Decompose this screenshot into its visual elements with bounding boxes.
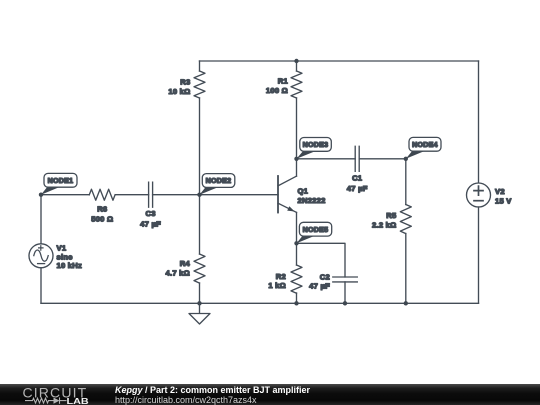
- wire R6 to C3: [115, 194, 148, 196]
- wire Q1 collector lead: [296, 159, 298, 176]
- wire C2 bottom lead: [344, 282, 346, 303]
- svg-text:R2: R2: [276, 272, 286, 281]
- svg-text:NODE1: NODE1: [48, 177, 74, 185]
- resistor R1: [266, 71, 302, 98]
- capacitor C2: [309, 273, 357, 291]
- svg-text:2.2 kΩ: 2.2 kΩ: [372, 221, 396, 230]
- svg-text:NODE5: NODE5: [303, 226, 329, 234]
- svg-text:Q1: Q1: [298, 186, 309, 195]
- transistor Q1: [278, 176, 326, 213]
- wire R4 bottom lead: [199, 283, 201, 303]
- wire R1 top lead: [296, 61, 298, 71]
- wire R3 bottom lead: [199, 98, 201, 195]
- wire NODE4 to R5: [405, 159, 407, 205]
- wire bottom rail: [41, 302, 479, 304]
- resistor R4: [166, 254, 205, 283]
- ground: [189, 303, 210, 324]
- footer url text: [115, 395, 257, 405]
- svg-text:V2: V2: [495, 187, 505, 196]
- svg-text:C3: C3: [145, 209, 155, 218]
- wire NODE1 to R6: [41, 194, 89, 196]
- junction R2 bottom: [294, 301, 298, 305]
- svg-text:NODE4: NODE4: [412, 141, 438, 149]
- svg-text:R5: R5: [386, 211, 397, 220]
- wire R1 bottom lead: [296, 98, 298, 159]
- resistor R6: [89, 189, 115, 224]
- junction top R1: [294, 59, 298, 63]
- svg-text:R4: R4: [180, 259, 191, 268]
- junction R5 bottom: [404, 301, 408, 305]
- svg-text:100 Ω: 100 Ω: [266, 86, 288, 95]
- wire NODE2 to Q1 base: [200, 194, 279, 196]
- svg-text:10 kHz: 10 kHz: [57, 261, 83, 270]
- capacitor C1: [347, 146, 368, 193]
- wire R2 bottom lead: [296, 293, 298, 303]
- svg-text:10 kΩ: 10 kΩ: [168, 87, 190, 96]
- node NODE4: [404, 137, 441, 161]
- svg-text:47 µF: 47 µF: [309, 281, 330, 290]
- wire R2 top lead: [296, 243, 298, 265]
- svg-text:1 kΩ: 1 kΩ: [268, 281, 286, 290]
- wire V1 bottom lead: [40, 268, 42, 304]
- resistor R3: [168, 71, 205, 98]
- svg-text:NODE2: NODE2: [206, 177, 232, 185]
- wire C1 to NODE4: [359, 158, 406, 160]
- svg-text:47 µF: 47 µF: [140, 219, 161, 228]
- footer banner: [0, 384, 540, 405]
- wire V1 top lead: [40, 195, 42, 244]
- CircuitLab logo: [22, 384, 94, 405]
- svg-text:V1: V1: [57, 244, 67, 253]
- wire top rail: [200, 60, 479, 62]
- svg-text:R1: R1: [278, 77, 289, 86]
- wire Q1 emitter lead: [296, 212, 298, 243]
- svg-text:R3: R3: [180, 78, 190, 87]
- resistor R2: [268, 265, 302, 293]
- svg-text:2N2222: 2N2222: [298, 196, 326, 205]
- svg-text:LAB: LAB: [67, 397, 89, 405]
- svg-text:4.7 kΩ: 4.7 kΩ: [166, 268, 190, 277]
- svg-text:sine: sine: [57, 252, 73, 261]
- voltage source V1: [29, 244, 82, 271]
- node NODE5: [294, 222, 331, 245]
- node NODE3: [294, 138, 331, 162]
- wire R5 bottom lead: [405, 234, 407, 304]
- svg-text:15 V: 15 V: [495, 197, 512, 206]
- svg-text:C2: C2: [320, 273, 330, 282]
- svg-text:500 Ω: 500 Ω: [91, 215, 113, 224]
- wire C3 to NODE2: [153, 194, 200, 196]
- svg-text:NODE3: NODE3: [303, 141, 329, 149]
- wire R4 top lead: [199, 195, 201, 254]
- resistor R5: [372, 205, 411, 234]
- wire V2 top rail: [478, 61, 480, 183]
- junction C2 bottom: [343, 301, 347, 305]
- wire V2 bottom lead: [478, 207, 480, 303]
- wire NODE3 to C1: [297, 158, 356, 160]
- wire R3 top lead: [199, 61, 201, 71]
- voltage source V2: [467, 183, 513, 207]
- junction R4 bottom: [197, 301, 201, 305]
- wire NODE5 to C2 branch: [297, 243, 346, 277]
- svg-text:C1: C1: [352, 174, 363, 183]
- capacitor C3: [140, 182, 161, 228]
- node NODE1: [39, 173, 77, 197]
- svg-text:R6: R6: [97, 205, 107, 214]
- footer title text: [115, 385, 310, 395]
- svg-text:47 µF: 47 µF: [347, 184, 368, 193]
- node NODE2: [197, 174, 235, 197]
